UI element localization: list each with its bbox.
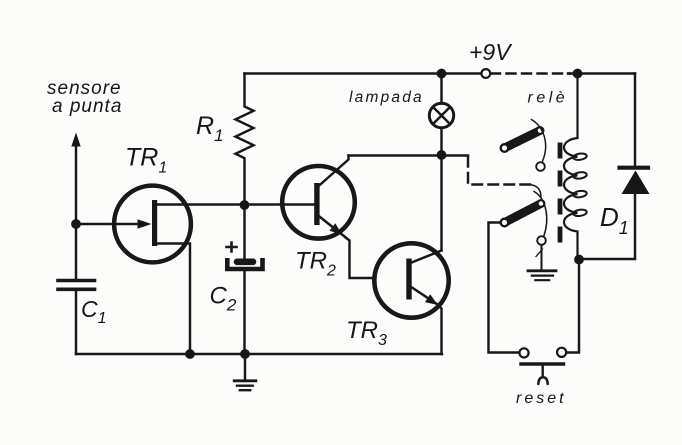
transistor TR3 — [374, 243, 448, 354]
wire TR2 collector to lamp node — [349, 154, 442, 156]
svg-text:D1: D1 — [600, 202, 629, 238]
transistor TR1 — [114, 186, 191, 263]
svg-text:relè: relè — [528, 90, 569, 107]
node junction bottom TR1 — [185, 349, 195, 359]
svg-text:C1: C1 — [81, 296, 107, 327]
transistor TR2 — [282, 156, 373, 279]
node junction coil bottom — [574, 255, 584, 265]
wire C2 column upper — [243, 205, 245, 258]
capacitor C1 — [58, 224, 95, 354]
relay lower contact — [501, 192, 547, 245]
node junction bottom C2/ground — [240, 349, 250, 359]
svg-text:lampada: lampada — [349, 89, 424, 106]
relay mechanical link dashed — [558, 143, 563, 244]
svg-text:reset: reset — [516, 390, 567, 407]
node junction lamp bottom — [437, 150, 447, 160]
node junction relay top — [573, 69, 583, 79]
node junction lamp top — [437, 69, 447, 79]
wire +9V rail dashed — [491, 72, 570, 74]
relay contact ground — [528, 245, 556, 280]
svg-text:a punta: a punta — [52, 96, 122, 117]
terminal open circle on +9V rail — [481, 69, 490, 78]
svg-text:C2: C2 — [210, 283, 237, 315]
wire TR1 bottom lead — [157, 244, 191, 355]
relay coil — [564, 74, 587, 260]
wire +9V rail right — [568, 72, 635, 74]
svg-text:+9V: +9V — [469, 39, 513, 65]
svg-text:TR2: TR2 — [295, 248, 336, 280]
sensor probe arrow — [71, 133, 80, 225]
wire collector column lamp node to TR3 — [440, 155, 442, 251]
lamp — [429, 74, 453, 156]
resistor R1 — [236, 74, 254, 205]
capacitor C2 electrolytic — [227, 243, 263, 270]
ground main — [234, 354, 256, 390]
wire +9V rail left — [245, 72, 482, 74]
reset pushbutton — [519, 348, 566, 384]
svg-text:R1: R1 — [196, 112, 224, 145]
diode D1 — [579, 74, 650, 260]
node junction sensor/C1/gate — [71, 219, 81, 229]
wire C2 column lower — [243, 272, 245, 355]
svg-text:TR3: TR3 — [346, 317, 387, 349]
node junction R1/TR1/TR2/C2 — [240, 200, 250, 210]
wire TR1 gate with arrow — [76, 219, 152, 229]
wire base row TR1 to TR2 — [157, 203, 315, 205]
wire coil bottom to reset — [566, 260, 579, 353]
svg-text:TR1: TR1 — [125, 144, 167, 177]
relay upper contact — [501, 120, 546, 171]
wire lower contact pivot to reset — [489, 223, 520, 353]
wire bottom rail — [76, 353, 442, 355]
wire lamp node to relay contact (dashed) — [442, 156, 542, 198]
